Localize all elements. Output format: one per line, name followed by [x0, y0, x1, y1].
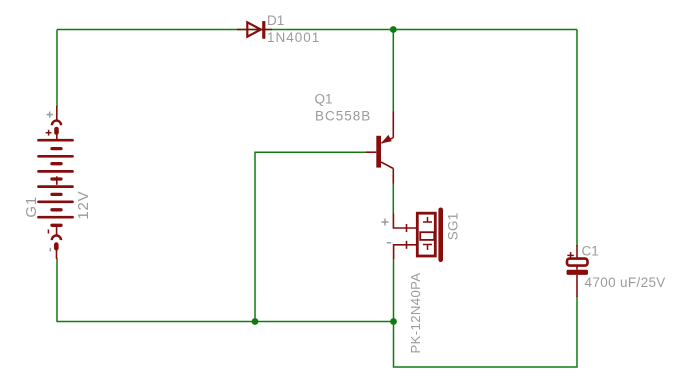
crystal bottom plate: [423, 244, 432, 246]
capacitor C1: [567, 245, 589, 297]
wire from Q1 collector down to buzzer + pin: [392, 183, 394, 213]
base pin: [366, 151, 376, 153]
svg-text:Q1: Q1: [315, 92, 333, 107]
emitter diagonal: [382, 138, 394, 143]
emitter arrow: [381, 135, 392, 144]
collector pin: [392, 169, 394, 184]
base bar: [376, 136, 381, 168]
body rectangle: [417, 213, 435, 256]
cell plates: long: [39, 140, 73, 217]
svg-text:C1: C1: [582, 244, 599, 259]
svg-text:12V: 12V: [75, 191, 92, 220]
wire bottom rail to node under buzzer: [255, 321, 394, 323]
+ terminal stud capsule: [54, 127, 59, 135]
svg-text:G1: G1: [23, 196, 40, 218]
wire left rail battery - down to bottom rail: [57, 258, 255, 322]
plus mark red: [46, 132, 52, 134]
+ pin tick: [406, 224, 408, 232]
crystal bottom stem: [427, 245, 429, 251]
label buzzer + pin (grey): [382, 219, 389, 226]
battery G1: [39, 106, 73, 259]
piezo disc bar: [438, 210, 443, 260]
wire from top node down to Q1 emitter: [392, 30, 394, 113]
wire top rail from battery + to top-right corner: [57, 29, 577, 31]
svg-text:1N4001: 1N4001: [267, 30, 320, 45]
svg-text:PK-12N40PA: PK-12N40PA: [408, 273, 423, 354]
bottom pin: [576, 275, 578, 297]
label battery + pin (grey): [47, 112, 53, 118]
transistor Q1: [366, 112, 393, 184]
crystal top plate: [423, 221, 432, 223]
label battery - pin (grey rotated dash): [49, 248, 51, 252]
+ plate (hollow): [567, 259, 588, 266]
node junction at bottom rail under buzzer: [390, 318, 397, 325]
crystal top stem: [427, 217, 429, 222]
- plate (filled): [567, 270, 589, 275]
top pin: [576, 245, 578, 258]
lead from stud to first plate: [56, 135, 58, 141]
node junction at bottom rail and base branch: [252, 318, 259, 325]
pin - lead: [56, 250, 58, 259]
wire base net from transistor Q1 to bottom rail: [255, 152, 367, 321]
link between plates: [576, 266, 578, 270]
+ terminal hook arc: [52, 121, 61, 126]
cell plates: short: [52, 149, 61, 226]
svg-text:SG1: SG1: [445, 212, 460, 240]
pin + lead: [56, 106, 58, 120]
emitter pin: [392, 112, 394, 138]
collector diagonal: [381, 162, 393, 169]
diode D1: [237, 21, 272, 39]
- terminal stud capsule: [54, 242, 59, 250]
node junction at top rail and emitter branch: [390, 26, 397, 33]
svg-text:BC558B: BC558B: [315, 109, 371, 124]
minus mark red (rotated dash): [47, 230, 49, 234]
crystal box: [420, 232, 434, 240]
wire left rail battery + up to top rail: [56, 30, 58, 107]
+ pin bent lead: [393, 214, 416, 229]
label buzzer - pin (grey): [387, 242, 391, 244]
wire from buzzer - pin down through node to bottom-right rail: [394, 259, 578, 367]
- pin tick: [406, 241, 408, 249]
- pin lead: [394, 245, 416, 259]
svg-text:D1: D1: [267, 13, 284, 28]
wire right rail down to capacitor C1 top: [576, 30, 578, 247]
plus mark red: [567, 254, 574, 256]
svg-text:4700 uF/25V: 4700 uF/25V: [585, 275, 666, 290]
buzzer SG1: [393, 210, 440, 260]
mid stack pin tick: [56, 176, 58, 185]
lead from last plate to - terminal: [56, 227, 58, 236]
- terminal hook arc: [52, 236, 61, 241]
